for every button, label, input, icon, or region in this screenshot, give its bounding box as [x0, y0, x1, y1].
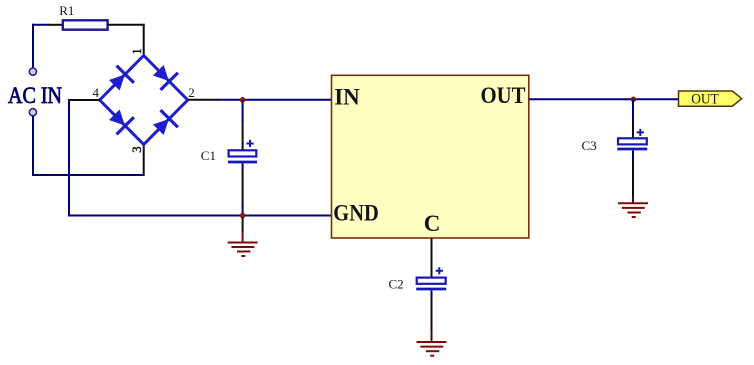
- wire GND rail: [68, 215, 332, 217]
- svg-text:C3: C3: [582, 138, 597, 153]
- wire AC bottom terminal down: [32, 116, 34, 176]
- capacitor C2: [416, 267, 446, 331]
- svg-text:4: 4: [93, 85, 100, 100]
- wire OUT rail: [529, 98, 679, 100]
- svg-text:OUT: OUT: [691, 92, 719, 108]
- svg-text:C1: C1: [201, 148, 216, 163]
- junction GND rail / C1: [240, 213, 246, 219]
- ground (below C2): [417, 330, 447, 356]
- pin C lead: [431, 238, 433, 279]
- svg-text:OUT: OUT: [481, 83, 526, 108]
- wire left drop (pin4 down to GND rail): [68, 99, 70, 217]
- wire left vertical (down to AC top terminal): [32, 24, 34, 68]
- svg-text:AC IN: AC IN: [8, 83, 62, 108]
- junction IN rail / C1: [240, 97, 246, 103]
- svg-text:C: C: [424, 211, 441, 236]
- svg-text:C2: C2: [389, 277, 404, 292]
- svg-text:GND: GND: [333, 200, 379, 225]
- svg-text:3: 3: [129, 146, 144, 153]
- svg-text:2: 2: [188, 85, 195, 100]
- wire IN rail: [217, 99, 332, 101]
- wire R1 right to bridge pin1 corner: [108, 24, 145, 38]
- capacitor C3: [617, 99, 647, 197]
- wire bottom-left horizontal to bridge pin 3: [32, 174, 144, 176]
- diode D top-left (4 to 1): [106, 64, 135, 93]
- bridge rectifier D1 diamond: [100, 56, 188, 145]
- ground (below C3): [618, 196, 648, 217]
- port flag OUT: [679, 91, 742, 106]
- junction OUT rail / C3: [631, 97, 637, 103]
- svg-text:IN: IN: [334, 84, 360, 109]
- wire top-left horizontal (AC top to R1): [32, 24, 63, 26]
- bridge pin 3 lead: [143, 145, 145, 177]
- svg-text:R1: R1: [59, 3, 74, 18]
- diode D top-right (1 to 2): [150, 62, 179, 91]
- bridge pin 1 lead: [143, 37, 145, 56]
- bridge pin 2 lead: [188, 99, 218, 101]
- resistor R1: [63, 20, 108, 29]
- bridge pin 4 lead: [68, 99, 100, 101]
- capacitor C1: [228, 100, 257, 216]
- regulator U1 box: [332, 75, 529, 238]
- ground (below C1): [228, 217, 258, 256]
- AC IN terminal top: [29, 68, 36, 75]
- diode D bottom-left (4 to 3): [106, 106, 135, 135]
- AC IN terminal bottom: [29, 109, 36, 116]
- diode D bottom-right (3 to 2): [150, 109, 179, 138]
- svg-text:1: 1: [129, 48, 144, 55]
